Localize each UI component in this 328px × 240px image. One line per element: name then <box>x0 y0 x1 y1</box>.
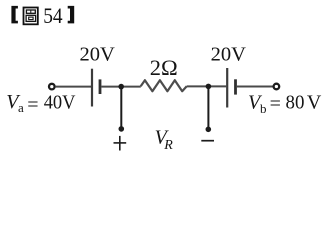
wire terminal Va to battery B1 <box>55 86 91 88</box>
polarity label minus <box>201 140 214 142</box>
svg-text:80: 80 <box>286 92 305 114</box>
svg-text:20V: 20V <box>80 44 116 66</box>
terminal Va <box>49 84 55 90</box>
battery B1 short plate <box>99 79 102 94</box>
node label Vb = 80 V <box>248 92 322 117</box>
wire battery B1 to resistor R <box>101 86 140 88</box>
figure caption bracket right 】 <box>68 6 75 24</box>
node A junction dot <box>118 84 124 90</box>
wire node A probe stub <box>120 87 122 128</box>
node A probe dot <box>119 126 125 132</box>
svg-text:V: V <box>307 92 322 114</box>
wire resistor R to battery B2 <box>187 85 227 87</box>
svg-text:20V: 20V <box>211 44 247 66</box>
node B probe dot <box>206 127 212 133</box>
svg-text:a: a <box>18 100 24 115</box>
figure caption bracket left 【 <box>11 6 18 24</box>
figure caption glyph 圖 <box>24 8 38 25</box>
node label Va = 40V <box>6 91 76 116</box>
svg-text:40V: 40V <box>44 91 76 113</box>
svg-text:54: 54 <box>43 3 62 28</box>
svg-text:2Ω: 2Ω <box>150 55 178 80</box>
terminal Vb <box>274 84 280 90</box>
battery B1 long plate <box>91 69 93 107</box>
node B junction dot <box>206 84 212 90</box>
wire battery B2 to terminal Vb <box>237 86 273 88</box>
svg-text:=: = <box>27 94 38 116</box>
svg-text:R: R <box>163 138 173 153</box>
battery B2 long plate <box>226 68 228 108</box>
polarity label plus <box>114 136 127 151</box>
svg-text:=: = <box>270 93 281 115</box>
svg-text:b: b <box>260 101 267 116</box>
battery B2 short plate <box>234 79 237 94</box>
resistor R <box>141 80 187 91</box>
wire node B probe stub <box>207 86 209 128</box>
